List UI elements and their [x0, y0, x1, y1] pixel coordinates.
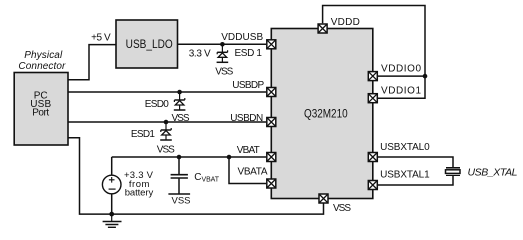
svg-text:ESD1: ESD1 — [131, 129, 155, 140]
svg-text:VBAT: VBAT — [202, 177, 220, 184]
svg-text:Connector: Connector — [18, 61, 66, 72]
svg-text:VBATA: VBATA — [238, 166, 268, 177]
svg-text:USBXTAL0: USBXTAL0 — [380, 142, 430, 153]
svg-text:USBXTAL1: USBXTAL1 — [380, 169, 430, 180]
svg-text:VSS: VSS — [172, 113, 190, 124]
svg-text:VSS: VSS — [215, 66, 233, 77]
svg-text:battery: battery — [125, 187, 154, 198]
svg-text:3.3 V: 3.3 V — [189, 49, 211, 60]
svg-text:VSS: VSS — [333, 203, 351, 214]
svg-text:ESD0: ESD0 — [145, 99, 169, 110]
svg-text:+5 V: +5 V — [91, 33, 111, 44]
svg-text:Port: Port — [32, 108, 49, 119]
svg-text:VSS: VSS — [172, 196, 191, 207]
svg-text:USB_XTAL: USB_XTAL — [468, 166, 518, 178]
svg-text:VDDIO1: VDDIO1 — [381, 85, 421, 96]
svg-text:USBDP: USBDP — [232, 80, 264, 91]
svg-text:VDDD: VDDD — [331, 17, 360, 28]
svg-text:VSS: VSS — [157, 144, 175, 155]
svg-text:Physical: Physical — [24, 50, 63, 61]
svg-text:ESD 1: ESD 1 — [234, 48, 262, 59]
svg-text:VDDUSB: VDDUSB — [221, 32, 263, 43]
svg-text:USB_LDO: USB_LDO — [126, 38, 173, 51]
svg-text:VBAT: VBAT — [237, 145, 260, 156]
svg-text:C: C — [194, 172, 201, 183]
svg-text:VDDIO0: VDDIO0 — [381, 63, 421, 74]
svg-text:USBDN: USBDN — [230, 113, 263, 124]
svg-text:Q32M210: Q32M210 — [304, 108, 348, 121]
